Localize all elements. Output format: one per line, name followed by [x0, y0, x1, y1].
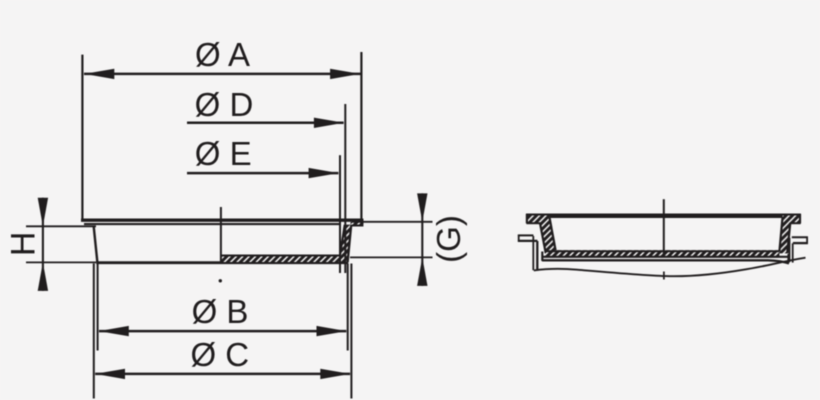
dim H top arrowhead [38, 198, 48, 227]
right view: bottom strip top line [545, 250, 779, 252]
dim B dimension line [99, 330, 346, 333]
dim A dimension line [84, 73, 361, 76]
right view: right wall outer outline [787, 223, 790, 254]
left view: center mark dot below [219, 279, 222, 282]
right view: panel left end cap [518, 235, 520, 242]
dim H bottom arrowhead [38, 262, 48, 291]
left view: body bottom thick line [96, 261, 348, 264]
svg-text:Ø E: Ø E [195, 135, 252, 172]
right view: panel break wavy line [534, 258, 806, 277]
right view: left flange tip and wall hatched section [526, 216, 556, 254]
dim C dimension line [95, 373, 350, 376]
label dim H [4, 232, 42, 257]
right view: left tip bottom line [526, 222, 540, 224]
label dim B [192, 293, 249, 330]
right view: panel left bottom line [518, 240, 538, 242]
dim A left extension line [81, 55, 83, 221]
right view: panel right collar outer line [788, 238, 790, 262]
right view: outer bottom line [542, 260, 789, 263]
dim E dimension line [187, 172, 338, 175]
dim G bottom arrowhead [417, 257, 427, 286]
dim G bottom extension line [350, 256, 433, 258]
right view: panel right top line [792, 236, 808, 238]
left view: plug flange underside line [84, 223, 341, 225]
dim C left extension line [93, 264, 95, 399]
right view: left outer bottom corner [541, 252, 543, 261]
left view: body left outer wall [94, 226, 98, 263]
dim B right arrowhead [317, 326, 347, 336]
dim D extension line [344, 104, 346, 273]
label dim D [195, 86, 254, 123]
dim B left extension line [97, 264, 99, 351]
dim B left arrowhead [99, 326, 129, 336]
right view: left wall outer outline [540, 223, 546, 253]
left view: plug flange top line [81, 218, 363, 221]
right view: center line [663, 199, 665, 257]
right view: panel right collar inner line [792, 243, 794, 262]
dim A right arrowhead [330, 69, 360, 79]
right view: left flange tip cap [526, 214, 528, 223]
right view: panel right bottom line [793, 242, 808, 244]
left view: section inner wall outline [340, 225, 345, 256]
left view: flange right tip hatched section [350, 222, 363, 226]
left view: section bottom strip top line [221, 254, 340, 256]
dim A left arrowhead [84, 69, 114, 79]
label dim G [430, 215, 467, 263]
right view: panel right end cap [806, 237, 808, 244]
dim H bottom extension line [26, 261, 96, 263]
label dim E [195, 135, 252, 172]
right view: bottom hatched strip [545, 250, 779, 257]
label dim C [190, 336, 249, 373]
left view: center line [220, 207, 222, 262]
right view: center mark tick on break line [663, 272, 665, 280]
right view: right wall inner outline [779, 218, 782, 252]
svg-text:Ø B: Ø B [192, 293, 249, 330]
label dim A [195, 36, 250, 73]
right view: right flange tip cap [799, 214, 801, 223]
svg-text:Ø D: Ø D [195, 86, 254, 123]
dim D arrowhead [314, 118, 344, 128]
dim E extension line [339, 155, 341, 273]
dim H top extension line [26, 225, 96, 227]
right view: panel left collar inner line [536, 241, 538, 271]
dim C right extension line [350, 264, 352, 399]
right view: right flange tip and wall hatched section [779, 216, 800, 254]
svg-text:Ø C: Ø C [190, 336, 249, 373]
dim A right extension line [360, 52, 362, 226]
right view: right tip bottom line [790, 222, 801, 224]
left view: flange right underside step line [350, 225, 364, 227]
svg-text:(G): (G) [430, 215, 467, 263]
left view: flange right edge cap [361, 220, 363, 227]
dim C right arrowhead [320, 369, 350, 379]
dim B right extension line [347, 264, 349, 351]
left view: section outer wall outline [348, 225, 352, 262]
right view: panel left collar outer line [532, 236, 534, 270]
right view: flange top thick line [526, 214, 801, 219]
right view: bottom strip bottom line [543, 256, 789, 258]
svg-text:Ø A: Ø A [195, 36, 250, 73]
svg-text:H: H [4, 232, 42, 257]
right view: left wall inner outline [550, 218, 557, 253]
dim H dimension line [42, 198, 44, 291]
dim E arrowhead [309, 168, 339, 178]
dim G dimension line [421, 193, 423, 286]
dim C left arrowhead [95, 369, 125, 379]
left view: sectioned wall and bottom hatched region [221, 225, 351, 262]
right view: panel left top line [518, 234, 534, 236]
right view: right outer bottom corner [787, 254, 789, 263]
dim G top extension line [352, 221, 433, 223]
dim D dimension line [187, 122, 344, 125]
dim G top arrowhead [417, 193, 427, 221]
